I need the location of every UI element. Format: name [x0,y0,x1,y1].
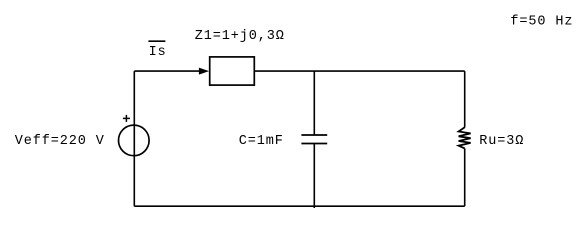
svg-text:f=50 Hz: f=50 Hz [510,15,573,30]
svg-text:Is: Is [149,45,167,60]
svg-text:C=1mF: C=1mF [239,134,284,149]
svg-text:Veff=220 V: Veff=220 V [15,134,105,149]
svg-text:Z1=1+j0,3Ω: Z1=1+j0,3Ω [195,29,285,44]
svg-text:Ru=3Ω: Ru=3Ω [479,134,524,149]
